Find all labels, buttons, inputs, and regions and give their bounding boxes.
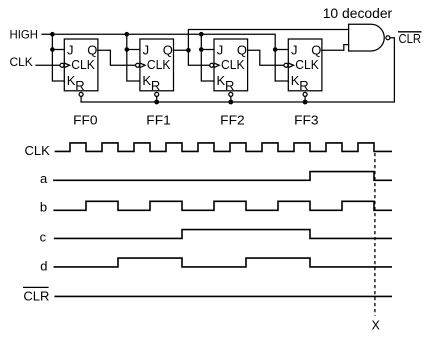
clock triangle FF0 [64,63,69,68]
node CLR junction FF3 [303,100,308,105]
node HIGH junction FF0 [50,32,55,37]
svg-text:Q: Q [87,43,97,58]
overline CLR waveform [23,286,49,288]
overline CLR output [398,31,422,33]
waveform CLR [54,295,392,297]
svg-text:HIGH: HIGH [10,28,39,42]
clock bubble FF2 [210,63,214,67]
clock bubble FF1 [136,63,140,67]
waveform c [54,230,392,239]
clock bubble FF0 [60,63,64,67]
wire FF0 reset drop [80,97,82,102]
wire J/K feed FF0 [52,34,64,81]
svg-text:J: J [67,43,74,58]
wire CLK input [36,64,59,66]
flip-flop FF0 box [64,39,98,91]
svg-text:CLK: CLK [25,143,51,158]
svg-text:CLR: CLR [23,288,49,303]
wire CLR bus [81,38,394,102]
svg-text:X: X [372,319,381,333]
wire FF1 reset drop [156,97,158,102]
flip-flop FF1 box [140,39,174,91]
svg-text:R: R [75,78,84,93]
wire Q1 to CLK2 [174,50,210,65]
svg-text:J: J [217,43,224,58]
svg-text:R: R [299,78,308,93]
node J junction FF1 [125,47,130,52]
clock bubble FF3 [284,63,288,67]
gate U1 output bubble [386,36,390,40]
svg-text:Q: Q [311,43,321,58]
wire Q1 to decoder top input [188,30,348,51]
clock triangle FF3 [288,63,293,68]
node J junction FF0 [50,47,55,52]
svg-text:FF0: FF0 [73,112,98,127]
reset bubble FF0 [79,92,83,96]
reset bubble FF2 [229,92,233,96]
flip-flop FF3 box [288,39,322,91]
waveform d [54,258,393,267]
svg-text:c: c [40,230,47,245]
svg-text:J: J [291,43,298,58]
wire Q3 to decoder bottom input [322,45,349,51]
wire Q2 to CLK3 [248,50,284,65]
waveform CLK [55,143,392,152]
svg-text:10 decoder: 10 decoder [323,5,393,21]
node J junction FF3 [273,47,278,52]
wire FF3 reset drop [304,97,306,102]
wire FF2 reset drop [230,97,232,102]
clock triangle FF2 [214,63,219,68]
svg-text:FF1: FF1 [146,112,171,127]
node HIGH junction FF1 [125,32,130,37]
svg-text:CLK: CLK [10,55,33,69]
svg-text:FF3: FF3 [294,112,319,127]
reset bubble FF3 [303,92,307,96]
gate U1 NAND 10-decoder [349,24,385,51]
svg-text:a: a [40,171,48,186]
svg-text:b: b [40,200,47,215]
wire HIGH bus [42,34,275,81]
svg-text:Q: Q [237,43,247,58]
wire J/K feed FF1 [127,34,140,81]
svg-text:FF2: FF2 [220,112,245,127]
svg-text:CLK: CLK [295,57,319,72]
wire J/K feed FF2 [201,34,214,81]
flip-flop FF2 box [214,39,248,91]
svg-text:J: J [143,43,150,58]
svg-text:CLK: CLK [71,57,95,72]
node J junction FF2 [199,47,204,52]
svg-text:R: R [225,78,234,93]
svg-text:Q: Q [163,43,173,58]
svg-text:d: d [40,259,47,274]
svg-text:CLK: CLK [147,57,171,72]
wire J/K feed FF3 [275,50,288,82]
node Q1 junction [186,48,191,53]
wire Q0 to CLK1 [98,50,135,65]
node HIGH junction FF2 [199,32,204,37]
node CLR junction FF2 [228,100,233,105]
waveform a [53,172,392,181]
node CLR junction FF1 [154,100,159,105]
svg-text:CLK: CLK [221,57,245,72]
dashed marker line X [374,153,376,316]
svg-text:R: R [151,78,160,93]
reset bubble FF1 [155,92,159,96]
svg-text:CLR: CLR [399,31,422,46]
clock triangle FF1 [140,63,145,68]
waveform b [53,201,392,210]
